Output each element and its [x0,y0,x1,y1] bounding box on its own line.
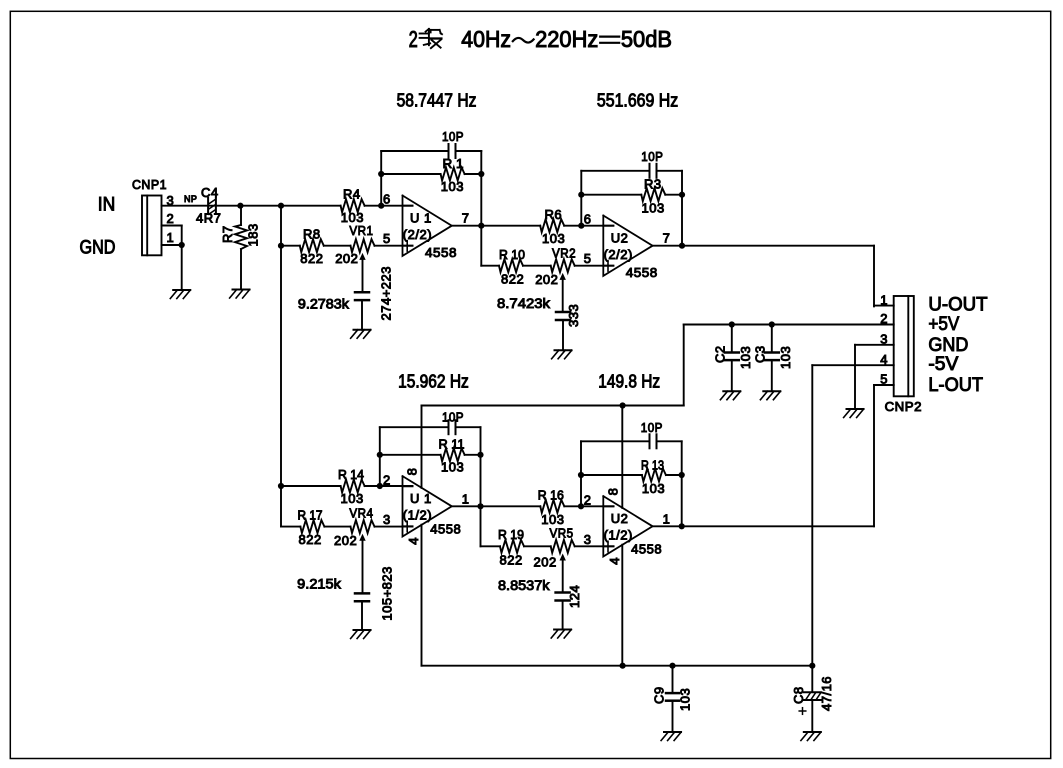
svg-text:VR1: VR1 [349,223,373,238]
svg-text:VR5: VR5 [550,526,574,541]
svg-text:GND: GND [928,335,968,356]
svg-text:4558: 4558 [430,522,461,537]
svg-text:C8: C8 [791,686,806,704]
svg-text:1: 1 [462,491,470,506]
svg-text:-5V: -5V [928,354,958,375]
svg-text:+5V: +5V [928,314,959,335]
svg-text:8: 8 [606,488,621,496]
svg-text:7: 7 [462,211,470,226]
svg-text:8: 8 [405,468,420,476]
svg-text:105+823: 105+823 [379,566,394,620]
svg-text:U 1: U 1 [410,491,432,506]
svg-text:(2/2): (2/2) [403,227,432,242]
svg-text:9.215k: 9.215k [297,576,342,592]
svg-text:5: 5 [880,372,888,387]
svg-text:103: 103 [542,231,565,246]
svg-text:4558: 4558 [425,245,457,260]
svg-text:103: 103 [441,460,464,475]
svg-text:103: 103 [778,346,793,369]
svg-text:4: 4 [607,557,622,565]
svg-text:220Hz: 220Hz [535,26,598,52]
svg-text:3: 3 [383,512,391,527]
svg-text:U-OUT: U-OUT [928,294,988,315]
svg-text:5: 5 [383,231,391,246]
svg-text:103: 103 [738,346,753,369]
svg-text:L-OUT: L-OUT [928,375,983,396]
svg-text:4R7: 4R7 [196,211,221,226]
svg-text:10P: 10P [442,129,464,144]
svg-text:R 17: R 17 [298,507,323,522]
svg-text:4: 4 [880,352,888,367]
svg-text:GND: GND [80,238,116,259]
svg-text:C3: C3 [752,345,767,363]
svg-text:2: 2 [167,211,175,226]
svg-text:47/16: 47/16 [819,676,834,711]
svg-text:1: 1 [880,292,888,307]
svg-text:124: 124 [567,585,582,608]
svg-text:U2: U2 [611,511,629,526]
svg-text:R 11: R 11 [439,437,465,452]
svg-text:R 19: R 19 [498,527,524,542]
svg-text:10P: 10P [442,410,464,425]
svg-text:103: 103 [341,491,364,506]
svg-text:CNP2: CNP2 [885,399,922,414]
svg-text:274+223: 274+223 [379,266,394,320]
svg-text:3: 3 [880,332,888,347]
svg-text:VR2: VR2 [552,245,576,260]
svg-text:10P: 10P [641,149,663,164]
svg-text:(1/2): (1/2) [403,508,432,523]
svg-text:R 13: R 13 [641,458,664,473]
svg-text:C9: C9 [652,686,667,704]
svg-text:9.2783k: 9.2783k [298,296,350,312]
svg-text:103: 103 [678,688,693,711]
svg-text:1: 1 [167,230,175,245]
svg-text:C4: C4 [201,185,219,200]
svg-text:50dB: 50dB [621,26,672,52]
svg-text:1: 1 [663,511,671,526]
svg-text:10P: 10P [641,420,663,435]
svg-text:3: 3 [584,532,592,547]
svg-text:(1/2): (1/2) [604,528,633,543]
svg-text:IN: IN [98,195,116,216]
svg-text:8.8537k: 8.8537k [498,577,551,593]
svg-text:R 14: R 14 [338,467,364,482]
svg-text:15.962 Hz: 15.962 Hz [398,372,469,392]
svg-text:R 10: R 10 [499,247,525,262]
svg-text:103: 103 [642,201,665,216]
svg-text:NP: NP [184,194,197,204]
svg-text:R 1: R 1 [443,156,464,171]
svg-text:5: 5 [584,251,592,266]
svg-text:202: 202 [534,555,557,570]
svg-text:103: 103 [642,481,665,496]
svg-text:822: 822 [500,553,523,568]
svg-text:822: 822 [501,272,524,287]
svg-text:7: 7 [663,231,671,246]
svg-text:58.7447 Hz: 58.7447 Hz [397,91,477,111]
svg-text:R3: R3 [644,176,662,191]
svg-text:R 16: R 16 [538,487,564,502]
svg-text:(2/2): (2/2) [604,247,633,262]
svg-text:2: 2 [383,472,391,487]
svg-text:R7: R7 [220,225,235,243]
svg-text:822: 822 [300,251,323,266]
svg-text:R4: R4 [343,187,361,202]
svg-text:CNP1: CNP1 [132,177,167,192]
svg-text:202: 202 [335,251,358,266]
svg-text:6: 6 [584,212,592,227]
svg-text:183: 183 [246,223,261,246]
svg-text:202: 202 [535,272,558,287]
svg-text:2: 2 [880,311,888,326]
svg-text:103: 103 [441,179,464,194]
svg-text:2: 2 [409,26,418,52]
svg-text:R8: R8 [303,227,321,242]
svg-text:40Hz: 40Hz [461,26,511,52]
svg-text:C2: C2 [712,345,727,363]
svg-text:4558: 4558 [626,265,658,280]
svg-text:4558: 4558 [631,542,662,557]
svg-text:4: 4 [406,537,421,545]
svg-text:333: 333 [566,304,581,327]
svg-text:R6: R6 [545,207,563,222]
svg-text:U2: U2 [611,231,629,246]
svg-text:U 1: U 1 [410,211,432,226]
svg-text:551.669 Hz: 551.669 Hz [597,91,678,111]
svg-text:149.8 Hz: 149.8 Hz [598,372,660,392]
svg-text:202: 202 [334,533,357,548]
svg-text:2: 2 [584,492,592,507]
svg-text:8.7423k: 8.7423k [497,295,551,311]
svg-text:6: 6 [383,192,391,207]
svg-text:VR4: VR4 [349,505,373,520]
svg-text:822: 822 [299,532,322,547]
